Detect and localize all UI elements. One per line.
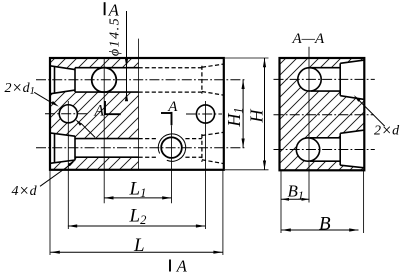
big circle <box>92 68 117 93</box>
hidden dashed: bores right half <box>139 68 202 158</box>
cutting line ticks <box>104 2 172 271</box>
L2 dimension <box>68 225 205 227</box>
svg-text:A: A <box>108 0 120 19</box>
svg-text:4×d: 4×d <box>12 181 38 200</box>
section hatching left half <box>50 58 139 170</box>
L1 dimension <box>104 197 171 199</box>
outline front view <box>50 58 224 170</box>
svg-text:A—A: A—A <box>292 31 326 47</box>
svg-text:A: A <box>167 99 178 115</box>
section boundary thin line <box>138 39 140 170</box>
H dimension <box>225 58 269 170</box>
phi14.5 dimension <box>126 11 128 99</box>
svg-text:H: H <box>246 109 266 124</box>
white holes over hatch <box>50 66 75 94</box>
svg-text:A: A <box>176 257 188 274</box>
countersink top-left <box>50 66 75 94</box>
small circle left <box>59 105 77 123</box>
H1 dimension <box>242 80 244 148</box>
leader 2xd <box>358 99 385 126</box>
hidden countersink bottom-right <box>202 132 224 163</box>
svg-text:ϕ14.5: ϕ14.5 <box>108 17 123 56</box>
small circle right <box>196 105 214 123</box>
upper bore solid <box>75 68 139 92</box>
L dimension <box>50 170 223 255</box>
B1 dimension <box>280 170 282 233</box>
svg-text:B: B <box>319 214 331 235</box>
bands and countersinks A-A <box>310 60 364 168</box>
svg-text:L: L <box>133 235 145 256</box>
double circle <box>161 137 182 158</box>
countersink bottom-left <box>50 133 75 163</box>
svg-text:A: A <box>94 103 105 120</box>
svg-text:2×d: 2×d <box>374 120 400 139</box>
B dimension <box>282 229 359 231</box>
lower bore solid <box>75 139 139 158</box>
centerlines <box>36 80 247 148</box>
centerlines A-A <box>274 79 375 149</box>
circles A-A <box>298 68 321 91</box>
hidden countersink top-right <box>202 64 224 95</box>
